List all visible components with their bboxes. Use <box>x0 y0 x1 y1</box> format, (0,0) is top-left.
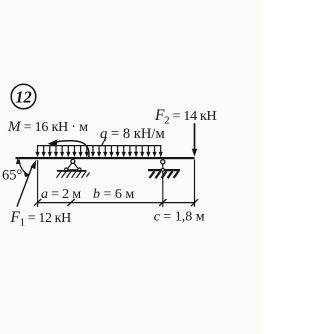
svg-text:a = 2 м: a = 2 м <box>41 187 81 202</box>
svg-text:M = 16 кН · м: M = 16 кН · м <box>7 119 88 135</box>
svg-text:12: 12 <box>15 87 32 106</box>
svg-text:F1 = 12 кН: F1 = 12 кН <box>10 209 72 229</box>
svg-text:65°: 65° <box>2 168 23 184</box>
svg-text:c = 1,8 м: c = 1,8 м <box>154 209 205 224</box>
svg-text:b = 6 м: b = 6 м <box>93 187 134 202</box>
svg-text:F2 = 14 кН: F2 = 14 кН <box>154 107 216 127</box>
svg-text:q = 8 кН/м: q = 8 кН/м <box>100 126 165 142</box>
